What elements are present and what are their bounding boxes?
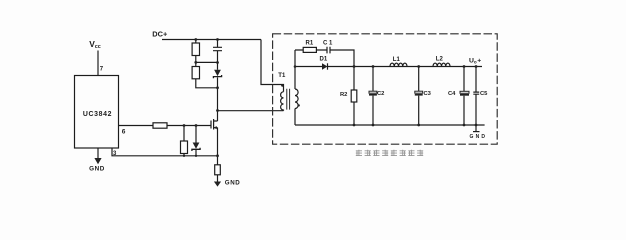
svg-text:L2: L2 <box>436 57 444 63</box>
svg-text:Uo+: Uo+ <box>469 57 481 64</box>
svg-text:C3: C3 <box>424 91 432 97</box>
svg-text:7: 7 <box>100 67 104 73</box>
svg-text:6: 6 <box>122 129 126 136</box>
svg-text:T1: T1 <box>278 73 286 79</box>
svg-text:D1: D1 <box>320 57 328 63</box>
svg-text:GND: GND <box>470 134 488 140</box>
svg-text:DC+: DC+ <box>152 29 168 38</box>
svg-text:R2: R2 <box>340 92 347 98</box>
svg-text:C4: C4 <box>448 91 456 97</box>
svg-text:GND: GND <box>89 166 105 173</box>
svg-text:GND: GND <box>225 180 241 187</box>
svg-text:R1: R1 <box>306 41 314 47</box>
svg-text:C5: C5 <box>480 91 488 97</box>
svg-text:Vcc: Vcc <box>89 39 101 50</box>
svg-text:L1: L1 <box>393 57 401 63</box>
svg-text:UC3842: UC3842 <box>83 111 112 118</box>
svg-text:C2: C2 <box>377 91 384 97</box>
svg-text:C 1: C 1 <box>323 41 333 47</box>
